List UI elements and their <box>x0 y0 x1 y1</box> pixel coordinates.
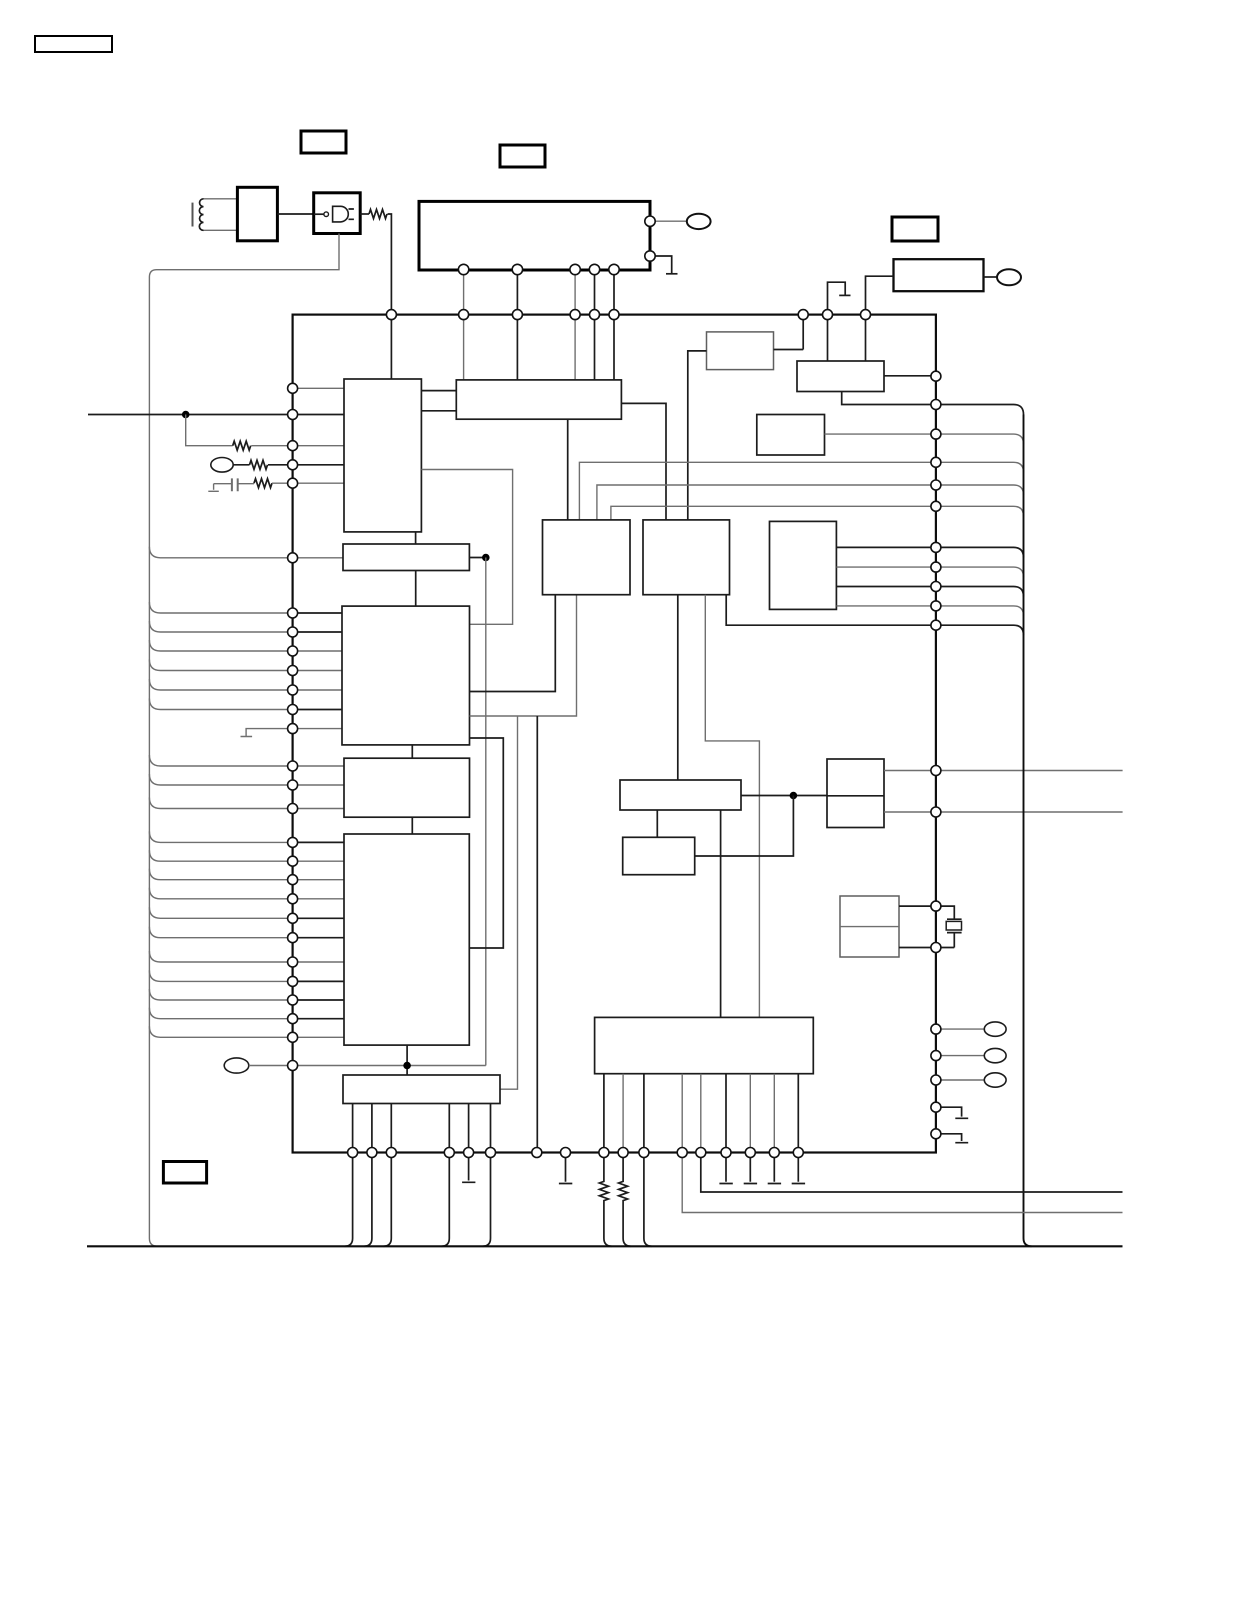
wire IC top pin x614 into block B <box>613 315 615 380</box>
wire block N to pin y947.5 <box>899 947 936 949</box>
wire block E top to pin y462.3 <box>579 462 936 520</box>
wire bus to pin y842.4 into block F2 <box>149 831 344 842</box>
wire block J right to pin y567.1 <box>836 566 936 568</box>
wire bus to pin y632 into block D <box>149 621 342 632</box>
block G (gray) <box>707 332 774 370</box>
block F2 <box>344 834 469 1045</box>
wire block E top to pin y506.3 <box>611 506 936 520</box>
wire bus to pin y709.5 into block D <box>149 699 342 710</box>
wire bus B1 to IC top x594.5 <box>594 270 596 315</box>
block A <box>344 379 421 532</box>
wire block J right to pin y605.9 <box>836 605 936 607</box>
ground GND2 <box>666 273 678 275</box>
junction dot J3 <box>403 1062 411 1070</box>
connector bubble CN5 <box>984 1022 1006 1036</box>
wire F2 bottom to block P top <box>406 1045 408 1075</box>
block M <box>623 837 695 874</box>
wire bus to pin y766 into block E2 <box>149 755 344 766</box>
wire B1 pin to connector CN1 <box>655 220 687 222</box>
wire bus to pin y981.4 into block F2 <box>149 970 344 981</box>
wire bus to pin y879.7 into block F2 <box>149 869 344 880</box>
wire bus to pin y962 into block F2 <box>149 951 344 962</box>
wire bus to pin y898.8 into block F2 <box>149 888 344 899</box>
wire block E bottom to block D right (lower, gray) <box>470 595 577 716</box>
bus arc pin y567.1 <box>936 567 1024 577</box>
wire pin y1055.6 to connector CN6 <box>936 1055 984 1057</box>
bus arc pin y485 <box>936 485 1024 495</box>
wire bus to pin y808.5 into block E2 <box>149 798 344 809</box>
block H <box>797 361 884 392</box>
connector C bottom to D top <box>415 571 417 607</box>
wire block D right to block F2 right (U loop) <box>469 738 503 948</box>
wire IC top pin x865.5 into block H <box>865 315 867 361</box>
left bus wire (vertical) <box>149 277 157 1246</box>
input wire with junction to pin y414.5 <box>88 414 293 416</box>
inductor L (coil with core) <box>193 199 238 231</box>
wire X2 to connector CN2 <box>984 276 998 278</box>
block P <box>343 1075 500 1104</box>
wire block I right to pin y434 <box>825 433 936 435</box>
wire bottom pin x700.8 east (dark) <box>701 1153 1123 1193</box>
wire block L to pin y770.5 and beyond <box>884 770 1123 772</box>
wire pin y464.8 to block A <box>293 464 344 466</box>
wire pin y1080 to connector CN7 <box>936 1079 984 1081</box>
wire block J right to pin y586.5 <box>836 586 936 588</box>
block K <box>620 780 741 810</box>
wire bus to pin y690 into block D <box>149 679 342 690</box>
wire T1 to U1 <box>277 213 313 215</box>
connector K bottom to M top <box>656 810 658 837</box>
wire block H bottom to pin y404.5 <box>842 392 936 405</box>
wire block N to pin y906.1 <box>899 905 936 907</box>
NAND gate symbol inside U1 <box>314 206 354 222</box>
IC top edge pin circles <box>386 310 870 320</box>
wires block Q bottom to IC bottom pins <box>604 1074 798 1153</box>
wire R1 down to IC pin <box>388 214 392 315</box>
block Q (DAC) <box>595 1017 814 1073</box>
wire IC top pin x594.5 into block B <box>594 315 596 380</box>
connector bubble CN7 <box>984 1073 1006 1087</box>
wire bus to pin y918.3 into block F2 <box>149 907 344 918</box>
bus arc pin y586.5 <box>936 587 1024 597</box>
connector D bottom to E2 top <box>411 745 413 758</box>
label box L3 <box>500 145 545 167</box>
IC bottom edge pin circles <box>348 1148 804 1158</box>
wire J1 down to resistor R2 <box>186 415 233 446</box>
block N oscillator (two cells) <box>840 896 899 957</box>
ground GND12 below pin x798.3 <box>792 1153 805 1184</box>
wire block G right to IC top pin x803 <box>774 315 804 350</box>
block E2 <box>344 758 470 817</box>
junction dot J2 <box>482 554 490 562</box>
wire block H right to pin y376 <box>884 375 936 377</box>
connector bubble CN1 <box>687 214 711 229</box>
wire bus to pin y1000 into block F2 <box>149 989 344 1000</box>
bus arc pin y462.3 <box>936 462 1024 472</box>
block D <box>342 606 470 745</box>
ground GND7 below pin x468.6 <box>462 1153 475 1183</box>
wire X2 to IC top pin x865.5 <box>866 276 894 314</box>
ground GND4 with capacitor C1 <box>208 478 254 491</box>
wire bottom pin x643.9 to rail <box>644 1153 652 1247</box>
wire bus to pin y557.8 into block C <box>149 547 343 558</box>
gray riser J2 down to pin row y1065.5 <box>485 558 487 1066</box>
IC right edge pin circles <box>931 371 941 1139</box>
wire pin y414.5 to block A <box>293 414 344 416</box>
wire block G left down to block F <box>688 351 707 520</box>
wire block F bottom to pin y625.2 <box>726 595 936 626</box>
connector A bottom to C top <box>415 532 417 544</box>
block E <box>543 520 631 595</box>
wire block F bottom into block K <box>677 595 679 780</box>
regulator block X2 <box>894 259 984 291</box>
bus arc pin y404.5 <box>936 405 1024 415</box>
label box L2 <box>301 131 346 153</box>
ground GND8 below pin x565.5 <box>559 1153 572 1184</box>
wire CN4 through pin y1065.5 to gray riser <box>249 1065 486 1067</box>
wire U1 output to resistor <box>360 213 369 215</box>
wire CN3 to resistor R3 <box>233 464 249 466</box>
resistor R1 <box>369 210 387 219</box>
wire R4 to pin <box>272 482 293 484</box>
wire IC top pin x827.5 into block H <box>827 315 829 361</box>
wire bus to pin y1018.7 into block F2 <box>149 1008 344 1019</box>
wire bottom pin x682.2 east (gray) <box>682 1153 1122 1213</box>
wire U1 bottom to left bus <box>149 234 339 278</box>
supply stub with ground at pin 827 <box>828 282 851 314</box>
block F <box>643 520 730 595</box>
bottom rail <box>87 1245 1123 1247</box>
pin circle on B1 right edge (lower) <box>645 251 655 261</box>
wire bottom pin x490.5 to rail <box>483 1153 491 1247</box>
wire pin y728.6 to block D <box>293 728 342 730</box>
wire IC top pin x575.1 into block B <box>574 315 576 380</box>
wire block B right into block F top <box>621 403 666 520</box>
connector bubble CN3 <box>211 458 233 473</box>
connector E2 bottom to F2 top <box>411 817 413 834</box>
wire block E bottom to block D right <box>470 595 556 692</box>
connector bubble CN6 <box>984 1048 1006 1062</box>
resistor R2 <box>233 441 251 450</box>
wire bus B1 to IC top x575.1 <box>574 270 576 315</box>
wire J4 down to block M right <box>695 796 794 857</box>
connector wires A to B <box>421 391 456 411</box>
pin circle on B1 right edge (upper) <box>645 216 655 226</box>
ground GND6 on pin y1133.8 <box>936 1134 968 1143</box>
wire R3 to pin <box>268 464 293 466</box>
block L (two cells) <box>827 759 884 828</box>
wire block K bottom to block Q top <box>720 810 722 1017</box>
wire block A right to block D right (gray loop) <box>421 470 512 625</box>
DSP block B1 (top) <box>419 201 650 270</box>
bus arc pin y625.2 <box>936 625 1024 635</box>
wire bottom pin x449.3 to rail <box>441 1153 449 1247</box>
junction dot J1 <box>182 411 190 419</box>
wire block K right to junction J4 and block L <box>741 795 827 797</box>
wires block P bottom to IC bottom pins <box>353 1104 491 1153</box>
wire bus to pin y785 into block E2 <box>149 774 344 785</box>
wire IC top pin x517.4 into block B <box>516 315 518 380</box>
wire branch down to bottom pin x537.3 <box>536 716 538 1153</box>
resistor R3 <box>250 460 268 469</box>
junction dot J4 <box>790 792 798 800</box>
wire block L to pin y812 and beyond <box>884 811 1123 813</box>
wire block B bottom into block E <box>567 419 569 520</box>
bus arc pin y547.4 <box>936 547 1024 557</box>
wire pin y388 to block A <box>293 387 344 389</box>
ground GND5 on pin y1107.2 <box>936 1107 968 1118</box>
wire IC top pin x463.6 into block B <box>463 315 465 380</box>
crystal X1 <box>936 906 962 947</box>
wire B1 pin to ground <box>655 256 672 274</box>
wire bus B1 to IC top x614 <box>613 270 615 315</box>
bus arc pin y605.9 <box>936 606 1024 616</box>
wire block E top to pin y485 <box>597 485 936 520</box>
connector bubble CN4 <box>224 1058 249 1073</box>
wire bus to pin y651 into block D <box>149 640 342 651</box>
wire block F bottom to block Q top (gray jog) <box>705 595 759 1018</box>
wire block C right to junction J2 <box>469 557 485 559</box>
resistor R4 <box>254 479 272 488</box>
IC main outline IC1 <box>293 315 936 1153</box>
wire bus B1 to IC top x463.6 <box>463 270 465 315</box>
wire bus to pin y1037.3 into block F2 <box>149 1026 344 1037</box>
connector bubble CN2 <box>997 269 1021 285</box>
wire pin y445.7 to block A <box>293 445 344 447</box>
label box L4 <box>892 217 938 241</box>
right bus vertical <box>1024 415 1032 1247</box>
label box L1 <box>35 36 112 52</box>
pin circles on B1 bottom edge <box>458 264 619 274</box>
bus arc pin y506.3 <box>936 506 1024 516</box>
wire bus B1 to IC top x517.4 <box>516 270 518 315</box>
bottom label box L5 <box>163 1162 206 1184</box>
block C <box>343 544 469 571</box>
wire pin y1029 to connector CN5 <box>936 1028 984 1030</box>
wire bus to pin y937.7 into block F2 <box>149 927 344 938</box>
bus arc pin y434.1 <box>936 434 1024 444</box>
block B <box>456 380 621 419</box>
block J <box>770 521 837 609</box>
wire bus to pin y861.2 into block F2 <box>149 850 344 861</box>
IC left edge pin circles <box>288 383 298 1070</box>
wire branch down to block P right edge <box>500 716 518 1089</box>
resistor R5 below pin x603.9 <box>599 1153 612 1247</box>
wire pin y483.2 to block A <box>293 482 344 484</box>
block I <box>757 415 825 456</box>
transformer block T1 <box>237 187 277 241</box>
ground GND10 below pin x750.3 <box>744 1153 757 1184</box>
oscillator gate box U1 <box>314 193 361 234</box>
resistor R6 below pin x623.1 <box>619 1153 632 1247</box>
ground GND11 below pin x774.3 <box>768 1153 781 1184</box>
wire bus to pin y613 into block D <box>149 602 342 613</box>
ground GND9 below pin x726 <box>719 1153 732 1184</box>
wire bus to pin y670.5 into block D <box>149 660 342 671</box>
wire R2 to pin <box>251 445 292 447</box>
wire IC top pin x391 into block A <box>390 315 392 379</box>
wire block J right to pin y547.4 <box>836 546 936 548</box>
ground GND1 on pin y728.6 <box>241 729 293 737</box>
wires bottom pins x352-391 to rail <box>345 1153 392 1247</box>
